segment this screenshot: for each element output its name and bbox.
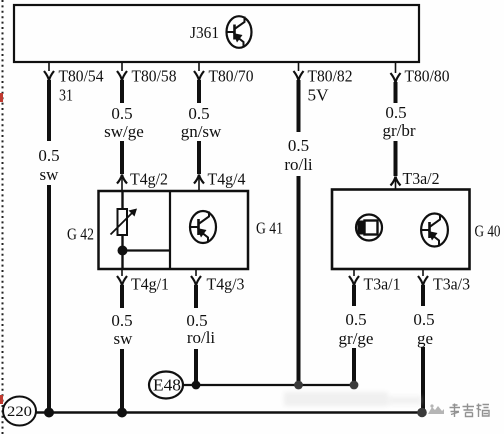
- junction dot sw wire on ground wire: [44, 408, 54, 418]
- svg-text:T4g/3: T4g/3: [207, 275, 245, 294]
- watermark logo: [428, 404, 444, 414]
- svg-text:G 42: G 42: [67, 225, 94, 244]
- variable resistor symbol G42: [111, 209, 138, 236]
- wire 0.5 sw/ge lower segment: [120, 141, 124, 174]
- value label 0.5 sw/ge: [104, 104, 144, 141]
- svg-text:5V: 5V: [308, 86, 330, 105]
- svg-text:J361: J361: [190, 23, 219, 42]
- value label 0.5 ro/li (T4g/3): [186, 311, 215, 347]
- pin T3a/3: [418, 269, 470, 294]
- hall sensor symbol in G40: [356, 215, 382, 241]
- ground point E48: [149, 372, 183, 399]
- ground wire: [36, 411, 422, 413]
- pin T4g/4: [194, 170, 246, 192]
- svg-text:gn/sw: gn/sw: [181, 122, 222, 141]
- svg-text:gr/br: gr/br: [382, 121, 415, 140]
- svg-text:220: 220: [7, 404, 32, 420]
- svg-text:0.5: 0.5: [413, 310, 434, 329]
- pin T80/70: [194, 62, 254, 86]
- pin T4g/2: [117, 170, 168, 192]
- sender box G40: [332, 190, 470, 270]
- svg-text:T80/70: T80/70: [209, 67, 254, 86]
- wire T3a/1 to E48 line: [352, 348, 356, 385]
- terminal 31 label: [59, 86, 73, 105]
- wire 0.5 gr/ge upper segment: [352, 285, 356, 306]
- pin T80/58: [117, 62, 177, 86]
- wire T4g/3 to E48 line: [194, 349, 198, 385]
- wire 0.5 ro/li upper segment: [297, 80, 301, 132]
- svg-text:E48: E48: [153, 376, 181, 395]
- value label 0.5 gn/sw: [181, 104, 222, 141]
- svg-text:ro/li: ro/li: [187, 328, 216, 347]
- wire 0.5 ge upper segment: [421, 285, 425, 306]
- transistor symbol in G40: [421, 214, 448, 247]
- divider between G42 and G41: [169, 191, 171, 269]
- pin T80/54: [44, 62, 104, 86]
- junction dot T80/82 wire on E48 wire: [294, 381, 303, 390]
- watermark text: [450, 404, 490, 418]
- transistor symbol G41: [190, 211, 216, 243]
- svg-text:ge: ge: [417, 329, 433, 348]
- svg-text:31: 31: [59, 86, 73, 105]
- terminal 5V label: [308, 86, 330, 105]
- internal wire G42 lower: [121, 235, 123, 269]
- svg-text:G 40: G 40: [475, 222, 501, 241]
- transistor symbol inside J361: [227, 16, 252, 48]
- svg-text:0.5: 0.5: [111, 104, 132, 123]
- E48 wire: [184, 384, 355, 386]
- J361 label: [190, 23, 219, 42]
- svg-text:T4g/4: T4g/4: [208, 170, 246, 189]
- sensor box G42/G41: [99, 191, 249, 269]
- wire 0.5 ro/li lower segment to E48 line: [297, 176, 301, 385]
- wire 0.5 gn/sw upper segment: [197, 80, 201, 103]
- G 40 label: [475, 222, 501, 241]
- pin T80/82: [294, 62, 353, 86]
- svg-text:T3a/1: T3a/1: [364, 275, 401, 294]
- wire 0.5 gr/br upper segment: [394, 82, 398, 103]
- wire 0.5 sw/ge upper segment: [120, 80, 124, 103]
- svg-text:T3a/3: T3a/3: [433, 275, 470, 294]
- value label 0.5 sw: [38, 146, 59, 184]
- watermark smudge: [284, 392, 422, 406]
- value label 0.5 gr/ge: [339, 310, 374, 348]
- internal wire G42 upper: [121, 191, 123, 210]
- G 41 label: [256, 219, 283, 238]
- svg-text:sw: sw: [114, 329, 134, 348]
- wire T3a/3 to ground line: [421, 347, 425, 412]
- svg-text:ro/li: ro/li: [284, 155, 313, 174]
- svg-text:sw: sw: [40, 165, 60, 184]
- pin T3a/1: [349, 269, 401, 294]
- junction dot inside G42: [118, 246, 128, 256]
- wire 0.5 gn/sw lower segment: [197, 141, 201, 174]
- value label 0.5 ge: [413, 310, 434, 348]
- junction dot T4g/3 on E48 wire: [192, 381, 201, 390]
- G 42 label: [67, 225, 94, 244]
- svg-text:0.5: 0.5: [288, 136, 309, 155]
- svg-text:T80/82: T80/82: [308, 67, 353, 86]
- svg-text:T80/80: T80/80: [405, 67, 450, 86]
- svg-text:0.5: 0.5: [111, 311, 132, 330]
- ground connection 220: [3, 397, 36, 426]
- wire T4g/1 to ground line: [120, 349, 124, 412]
- control unit J361 box: [14, 5, 419, 62]
- value label 0.5 gr/br: [382, 103, 415, 140]
- svg-text:T4g/1: T4g/1: [131, 275, 169, 294]
- svg-text:0.5: 0.5: [188, 104, 209, 123]
- wire 0.5 sw upper segment: [47, 80, 51, 141]
- wire 0.5 sw lower segment: [47, 185, 51, 412]
- svg-text:G 41: G 41: [256, 219, 283, 238]
- pin T3a/2: [391, 169, 440, 190]
- svg-text:T80/54: T80/54: [59, 67, 104, 86]
- svg-text:sw/ge: sw/ge: [104, 122, 144, 141]
- page border dotted line: [2, 0, 4, 434]
- svg-text:0.5: 0.5: [345, 310, 366, 329]
- junction dot T3a/3 wire on ground wire: [417, 408, 427, 418]
- wire 0.5 sw lower upper segment: [120, 285, 124, 308]
- internal tap wire to divider: [123, 249, 171, 251]
- value label 0.5 sw (T4g/1): [111, 311, 133, 348]
- svg-text:T4g/2: T4g/2: [130, 170, 168, 189]
- pin T4g/3: [191, 269, 245, 294]
- svg-text:T80/58: T80/58: [132, 67, 177, 86]
- pin T4g/1: [117, 269, 169, 294]
- svg-text:0.5: 0.5: [38, 146, 59, 165]
- svg-text:0.5: 0.5: [385, 103, 406, 122]
- wire 0.5 ro/li (T4g/3) upper segment: [194, 285, 198, 308]
- junction dot T3a/1 on E48 wire: [350, 381, 359, 390]
- wire 0.5 gr/br lower segment: [394, 141, 398, 176]
- value label 0.5 ro/li: [284, 136, 313, 174]
- svg-text:T3a/2: T3a/2: [403, 169, 440, 188]
- pin T80/80: [391, 62, 450, 86]
- svg-text:gr/ge: gr/ge: [339, 329, 374, 348]
- junction dot T4g/1 wire on ground wire: [117, 408, 127, 418]
